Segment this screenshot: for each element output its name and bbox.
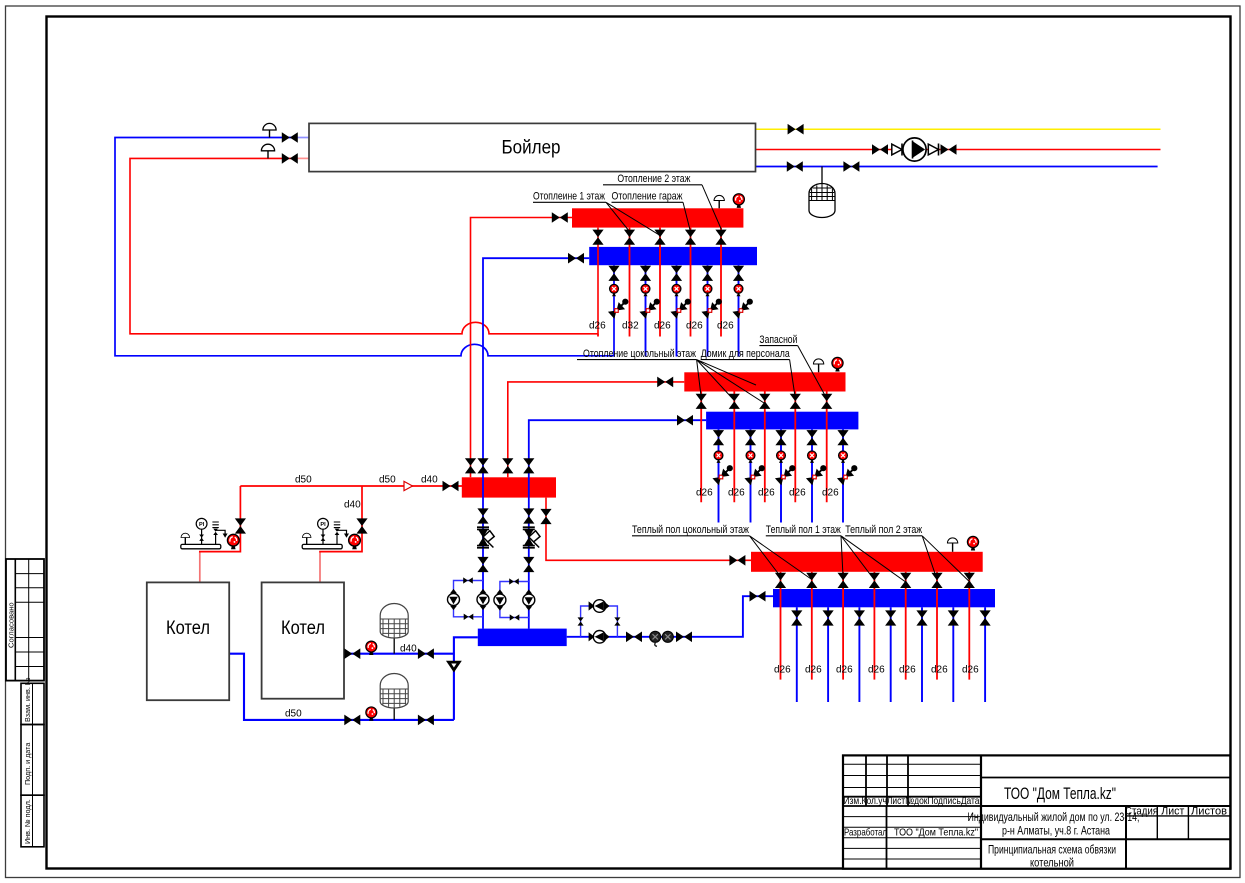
valve on red recirc line: [872, 144, 888, 155]
return main pump: [589, 631, 610, 644]
manifold1 drain cocks: [608, 299, 628, 319]
gauge boiler1 safety: [227, 534, 239, 549]
valve on blue line at boiler: [282, 132, 298, 143]
svg-text:Котел: Котел: [281, 617, 325, 639]
svg-text:Теплый пол 1 этаж: Теплый пол 1 этаж: [766, 524, 841, 536]
expansion tank 2: [380, 674, 408, 709]
pressure gauge on manifold3: [967, 536, 978, 550]
svg-text:d26: d26: [758, 488, 775, 499]
central return header (blue): [478, 629, 567, 647]
leader lines from Отопление цокольный этаж: [697, 360, 765, 404]
wire: red riser manifold1 circuit3: [659, 228, 661, 337]
valve on manifold3 blue feed: [750, 591, 766, 602]
title block left grid horizontals: [843, 764, 981, 859]
wire: stem to air separator: [821, 167, 823, 185]
wire: red riser manifold1 circuit5: [720, 228, 722, 337]
3-way mixing valve circuit2: [523, 527, 540, 548]
svg-text:d26: d26: [728, 488, 745, 499]
valve boiler2 return a: [344, 648, 360, 659]
svg-text:Отопление цокольный этаж: Отопление цокольный этаж: [583, 348, 696, 360]
svg-text:Бойлер: Бойлер: [502, 137, 561, 159]
wire: blue drop manifold1 circuit3: [676, 265, 678, 356]
svg-text:d26: d26: [931, 665, 948, 676]
manifold2 supply bar (red): [684, 372, 845, 391]
central supply header (red): [462, 477, 556, 497]
valve on manifold2 blue feed: [677, 415, 693, 426]
wire: red supply line d50 to central manifold: [240, 485, 462, 487]
title block outline: [843, 755, 1230, 868]
wire: return header pump bypass loop: [581, 606, 618, 637]
wire: mixing circuit2 bypass loop: [500, 582, 529, 618]
air separator / filter vessel: [809, 184, 835, 218]
wire: yellow DHW line from boiler right: [756, 128, 1161, 130]
svg-text:Инв. № подл.: Инв. № подл.: [23, 799, 32, 844]
svg-text:Листов: Листов: [1191, 806, 1227, 818]
wire: red risers manifold3: [781, 572, 970, 680]
safety group boiler2: [302, 518, 349, 548]
valve above header red riser m2: [502, 458, 513, 473]
valve on manifold1 blue feed: [568, 253, 584, 264]
wire: red branch to floor-heating manifold3: [546, 498, 751, 561]
circuit1 bypass pump: [448, 589, 460, 610]
svg-text:Подп. и дата: Подп. и дата: [23, 743, 32, 785]
svg-text:d50: d50: [379, 475, 396, 486]
boiler (Бойлер) box: [309, 123, 756, 171]
valve boiler2 return b: [418, 648, 434, 659]
svg-text:d26: d26: [805, 665, 822, 676]
svg-text:Запасной: Запасной: [759, 334, 797, 346]
3-way mixing valve circuit1: [477, 527, 494, 548]
leader line from Домик для персонала: [790, 360, 796, 399]
circuit1 main pump: [477, 589, 489, 610]
air vent on blue line: [263, 123, 276, 137]
gauge boiler1 return: [366, 707, 377, 721]
valve above header red riser m1: [465, 458, 476, 473]
manifold1 supply bar (red): [572, 208, 743, 227]
svg-text:d40: d40: [421, 475, 438, 486]
svg-text:d40: d40: [344, 500, 361, 511]
air vent on manifold2: [813, 359, 823, 372]
wire: blue link return header to boilers: [454, 637, 478, 720]
manifold3 drop valves: [791, 610, 802, 625]
valve below header circuit1: [477, 508, 488, 523]
manifold3 return bar (blue): [773, 589, 995, 607]
svg-text:ТОО "Дом Тепла.kz": ТОО "Дом Тепла.kz": [1004, 785, 1116, 803]
leader lines from Теплый пол 2 этаж: [922, 536, 969, 582]
svg-text:Стадия: Стадия: [1125, 806, 1158, 818]
valve on yellow line: [788, 124, 804, 135]
svg-text:Индивидуальный жилой дом по у: Индивидуальный жилой дом по ул. 23-14,: [968, 810, 1140, 824]
valve above header blue m1: [477, 458, 488, 473]
svg-text:d50: d50: [285, 709, 302, 720]
pressure gauge on manifold1: [733, 194, 744, 208]
manifold1 drop valves: [608, 266, 619, 281]
pressure gauge on manifold2: [832, 357, 843, 371]
valve on red recirc line right: [941, 144, 957, 155]
svg-text:Отопление гараж: Отопление гараж: [612, 191, 683, 203]
valve boiler1 red riser: [235, 518, 246, 533]
valve below header circuit2: [523, 508, 534, 523]
label Отопление гараж: [612, 191, 684, 203]
valve below header red branch m3: [540, 509, 551, 524]
wire: red riser manifold1 circuit4: [690, 228, 692, 337]
circuit2 main pump: [523, 589, 535, 610]
pump P1 recirculation: [903, 138, 926, 161]
bypass branch valve left: [578, 617, 584, 625]
wire: blue return loop boiler-left-side down to return header: [115, 138, 614, 356]
label Теплый пол 2 этаж: [845, 524, 922, 536]
svg-text:d26: d26: [686, 321, 703, 332]
svg-text:Лист: Лист: [1161, 806, 1184, 818]
title block left grid verticals: [866, 755, 981, 868]
svg-text:d26: d26: [899, 665, 916, 676]
wire: light stub blue at boiler: [296, 137, 309, 139]
gauge boiler2 safety: [349, 534, 361, 549]
valve circuit1 below mixer: [477, 557, 488, 572]
svg-text:Теплый пол 2 этаж: Теплый пол 2 этаж: [845, 524, 922, 536]
svg-text:Взам. инв. №: Взам. инв. №: [23, 677, 32, 722]
wire: boiler1 red riser to supply header: [199, 552, 201, 583]
valve on manifold2 red feed: [657, 377, 673, 388]
valve on return line right: [676, 632, 692, 643]
flow arrow on d50 line: [404, 481, 413, 490]
return pump bypass top pump: [589, 600, 610, 613]
valve boiler2 red riser: [356, 518, 367, 533]
label Отоплеине 1 этаж: [533, 191, 606, 203]
svg-text:d40: d40: [400, 644, 417, 655]
circuit2 bypass top valve: [509, 578, 519, 584]
circuit1 bypass bottom valve: [464, 614, 474, 620]
kotel2 box: [262, 582, 344, 698]
manifold1 return bar (blue): [589, 247, 757, 265]
svg-text:р-н Алматы, уч.8 г. Астана: р-н Алматы, уч.8 г. Астана: [1002, 824, 1110, 838]
manifold2 return bar (blue): [706, 412, 858, 430]
manifold1 riser valves: [592, 230, 603, 245]
svg-text:котельной: котельной: [1030, 856, 1074, 870]
left margin box Подп. и дата: [21, 725, 44, 796]
wire: mixing circuit1 bypass loop: [454, 581, 484, 617]
wire: red recirculation line from boiler right: [756, 149, 1161, 151]
wire: blue cold water line from boiler right: [756, 166, 1158, 168]
leader line from Отопление 2 этаж: [702, 185, 721, 230]
wire: red risers manifold2: [701, 392, 827, 503]
wire: blue feed from manifold2 blue bar down through header to mixing circuit2: [529, 420, 706, 628]
wire: red feed to manifold2 red bar: [508, 382, 685, 477]
circuit2 bypass bottom valve: [510, 614, 520, 620]
svg-text:d26: d26: [589, 321, 606, 332]
air vent on manifold1: [714, 195, 724, 208]
title block right-part lines: [981, 778, 1230, 869]
kotel1 box: [147, 582, 229, 700]
valve on blue cw line left: [787, 161, 803, 172]
svg-text:d26: d26: [717, 321, 734, 332]
svg-text:Котел: Котел: [166, 617, 210, 639]
valve on blue cw line right: [843, 161, 859, 172]
valve on supply header feed: [443, 481, 459, 492]
wire: boiler1 return line: [229, 654, 454, 720]
valve boiler1 return a: [344, 715, 360, 726]
manifold1 thermometers: [610, 284, 619, 296]
label Теплый пол 1 этаж: [766, 524, 841, 536]
wire: red supply loop boiler-left-side from supply manifold: [130, 158, 598, 333]
gauge boiler2 return: [366, 641, 377, 655]
manifold2 riser valves: [696, 394, 707, 409]
svg-text:Отоплеине 1 этаж: Отоплеине 1 этаж: [533, 191, 605, 203]
label Отопление цокольный этаж: [577, 348, 697, 360]
manifold2 drain cocks: [712, 465, 732, 485]
valve boiler1 return b: [418, 715, 434, 726]
safety group boiler1: [181, 518, 228, 548]
leader line from Отопление гараж: [683, 202, 690, 231]
svg-text:d26: d26: [654, 321, 671, 332]
label Отопление 2 этаж: [603, 173, 702, 185]
svg-text:d26: d26: [789, 488, 806, 499]
wire: blue drops manifold2: [719, 429, 844, 522]
left margin approval table (Согласовано): [6, 559, 44, 681]
leader line from Запасной: [798, 346, 827, 399]
circuit2 bypass pump: [494, 589, 506, 610]
svg-text:Изм.Кол.учЛист№докПодписьДата: Изм.Кол.учЛист№докПодписьДата: [844, 795, 980, 807]
svg-text:Согласовано: Согласовано: [7, 602, 16, 648]
air vent on red line: [261, 144, 274, 158]
svg-text:d26: d26: [696, 488, 713, 499]
wire: manifold1 red risers hanging ends (to floors): [597, 334, 599, 337]
manifold2 thermometers: [714, 451, 723, 463]
wire: blue drop manifold1 circuit4: [707, 265, 709, 356]
svg-text:Принципиальная схема обвязки: Принципиальная схема обвязки: [988, 843, 1116, 857]
left margin box Взам. инв. №: [21, 683, 44, 724]
circuit1 bypass top valve: [463, 577, 473, 583]
manifold2 drop valves: [713, 430, 724, 445]
svg-text:Теплый пол цокольный этаж: Теплый пол цокольный этаж: [632, 524, 749, 536]
wire: expansion tank1 stem: [393, 637, 395, 654]
svg-text:Отопление 2 этаж: Отопление 2 этаж: [617, 173, 690, 185]
air vent on manifold3: [947, 538, 957, 552]
wire: blue feed from manifold1 blue bar down through header to mixing circuit1: [483, 258, 589, 628]
wire: red feed to manifold1 red bar: [471, 218, 573, 478]
bypass branch valve right: [614, 617, 620, 625]
svg-text:d26: d26: [962, 665, 979, 676]
svg-text:d32: d32: [622, 321, 639, 332]
label Запасной: [759, 334, 797, 346]
wire: boiler2 red riser joining supply line: [319, 552, 321, 583]
check valve left: [892, 144, 902, 156]
wire: blue drop manifold1 circuit2: [645, 265, 647, 356]
label Теплый пол цокольный этаж: [632, 524, 750, 536]
left margin box Инв. № подл.: [21, 795, 44, 847]
magnetic filter device: [650, 631, 674, 646]
manifold3 supply bar (red): [751, 552, 983, 572]
valve on manifold1 red feed: [552, 212, 568, 223]
wire: boiler2 return line: [344, 653, 454, 655]
leader lines from Отоплеине 1 этаж: [606, 202, 659, 235]
wire: blue drop manifold1 circuit5: [738, 265, 740, 356]
label Домик для персонала: [701, 348, 791, 360]
svg-text:d26: d26: [836, 665, 853, 676]
svg-text:ТОО "Дом Тепла.kz": ТОО "Дом Тепла.kz": [894, 827, 978, 839]
wire: light stub red at boiler: [296, 157, 309, 159]
svg-text:d26: d26: [822, 488, 839, 499]
leader lines from Теплый пол 1 этаж: [841, 536, 906, 582]
valve above header blue m2: [523, 458, 534, 473]
svg-text:Домик для персонала: Домик для персонала: [701, 348, 791, 360]
svg-text:Разработал: Разработал: [844, 827, 887, 839]
wire: expansion tank2 stem: [393, 708, 395, 720]
valve on red line at boiler: [282, 153, 298, 164]
wire: red riser manifold1 circuit2: [629, 228, 631, 337]
leader lines from Теплый пол цокольный этаж: [750, 536, 812, 580]
manifold3 riser valves: [775, 573, 786, 588]
valve on manifold3 red feed: [729, 555, 745, 566]
valve circuit2 below mixer: [523, 557, 534, 572]
valve on return line: [626, 632, 642, 643]
strainer on header drop: [447, 662, 460, 672]
check valve right: [928, 144, 938, 156]
svg-text:d26: d26: [868, 665, 885, 676]
expansion tank 1: [380, 604, 408, 639]
wire: blue return from manifold3 to return header: [567, 596, 773, 637]
svg-text:d26: d26: [774, 665, 791, 676]
wire: blue drops manifold3: [797, 607, 985, 702]
svg-text:d50: d50: [295, 475, 312, 486]
